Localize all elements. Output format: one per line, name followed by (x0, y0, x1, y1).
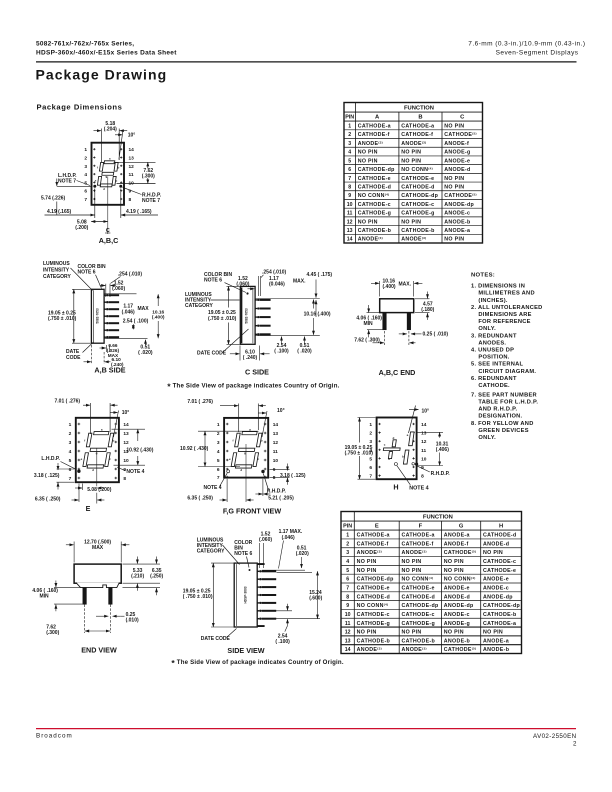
svg-text:14: 14 (347, 237, 353, 243)
svg-text:CATHODE-b: CATHODE-b (401, 228, 435, 234)
dimension 6.10 (.240) C side (239, 346, 241, 361)
svg-text:NO PIN: NO PIN (483, 550, 503, 556)
svg-text:f: f (84, 439, 85, 443)
svg-text:7. SEE PART NUMBER: 7. SEE PART NUMBER (471, 392, 537, 398)
svg-text:FOR REFERENCE: FOR REFERENCE (478, 319, 530, 325)
svg-text:ANODE(3): ANODE(3) (357, 550, 382, 557)
svg-text:b: b (118, 165, 120, 169)
svg-text:8: 8 (346, 594, 349, 600)
svg-text:CATHODE-dp: CATHODE-dp (402, 603, 439, 609)
svg-text:10°: 10° (277, 408, 285, 414)
svg-text:f: f (233, 439, 234, 443)
svg-text:CODE: CODE (66, 355, 81, 361)
dimension 6.10 (.240) body width (90, 345, 92, 364)
SIDE VIEW color bin mark (249, 569, 251, 571)
svg-text:CATHODE-d: CATHODE-d (483, 533, 517, 539)
svg-text:6: 6 (217, 467, 220, 473)
svg-text:(.200): (.200) (75, 225, 88, 231)
svg-text:12: 12 (123, 440, 129, 446)
svg-text:4.19 ( .165): 4.19 ( .165) (126, 209, 152, 215)
svg-text:(.300): (.300) (46, 630, 59, 636)
svg-text:10.92 ( .430): 10.92 ( .430) (180, 446, 209, 452)
svg-text:CIRCUIT DIAGRAM.: CIRCUIT DIAGRAM. (478, 369, 536, 375)
dimension 12.70 (.500) MAX end view (73, 542, 75, 563)
svg-text:ANODE-e: ANODE-e (444, 586, 470, 592)
svg-text:NO PIN: NO PIN (401, 158, 421, 164)
svg-text:4: 4 (217, 449, 220, 455)
svg-text:( .020): ( .020) (138, 350, 153, 356)
dimension 4.06 (.160) MIN end view (55, 581, 57, 588)
svg-text:1: 1 (69, 422, 72, 428)
svg-text:NO PIN: NO PIN (483, 630, 503, 636)
dimension 2.54 (.100) side view (270, 610, 292, 612)
svg-text:9: 9 (346, 603, 349, 609)
svg-text:e: e (229, 457, 231, 461)
svg-text:10: 10 (345, 612, 351, 618)
svg-text:14: 14 (421, 422, 427, 428)
svg-text:Package Dimensions: Package Dimensions (37, 102, 123, 111)
A,B side view body outline (91, 289, 104, 343)
svg-text:a: a (249, 427, 251, 431)
svg-text:6: 6 (69, 467, 72, 473)
svg-text:(.060): (.060) (259, 537, 272, 543)
svg-text:ANODE(3): ANODE(3) (401, 236, 426, 243)
svg-text:DESIGNATION.: DESIGNATION. (478, 414, 522, 420)
svg-text:6.35 ( .250): 6.35 ( .250) (35, 497, 61, 503)
svg-text:13: 13 (123, 431, 129, 437)
svg-text:NO PIN: NO PIN (444, 184, 464, 190)
svg-text:(.210): (.210) (131, 573, 144, 579)
svg-text:12: 12 (345, 630, 351, 636)
svg-text:NO PIN: NO PIN (444, 124, 464, 130)
svg-text:NO PIN: NO PIN (444, 176, 464, 182)
dimension 10.92 (.430) F,G view (198, 430, 259, 432)
svg-text:(.010): (.010) (126, 617, 139, 623)
dimension 10.92 (.430) E view (112, 428, 146, 430)
svg-text:8: 8 (421, 474, 424, 480)
dimension .254 (.010) pin thickness (105, 284, 107, 297)
svg-text:ANODE-b: ANODE-b (444, 219, 471, 225)
table EFGH data rows (341, 538, 522, 540)
svg-text:NOTE 4: NOTE 4 (126, 469, 144, 475)
svg-text:.254 (.010): .254 (.010) (262, 269, 287, 275)
A,B,C front view left decimal point L.H.D.P. (93, 185, 96, 188)
svg-text:A,B SIDE: A,B SIDE (94, 366, 125, 375)
svg-text:(.400): (.400) (383, 284, 396, 290)
svg-text:b: b (402, 455, 404, 459)
svg-text:(.060): (.060) (112, 286, 125, 292)
svg-text:NO PIN: NO PIN (444, 559, 464, 565)
svg-text:g: g (105, 175, 107, 179)
svg-text:Seven-Segment Displays: Seven-Segment Displays (496, 49, 579, 56)
svg-text:R.H.D.P.: R.H.D.P. (267, 488, 287, 494)
svg-text:CATHODE.: CATHODE. (478, 383, 510, 389)
svg-text:3: 3 (84, 164, 87, 170)
C side extension line pin 5 (255, 335, 320, 337)
svg-text:12: 12 (421, 439, 427, 445)
svg-text:CATHODE-f: CATHODE-f (358, 132, 390, 138)
table ABC FUNCTION header (344, 111, 483, 113)
svg-text:ANODE-a: ANODE-a (444, 533, 470, 539)
svg-text:CATHODE-f: CATHODE-f (402, 541, 434, 547)
svg-text:ANODE-d: ANODE-d (444, 594, 470, 600)
F,G front view body outline (224, 418, 268, 478)
svg-text:8. FOR YELLOW AND: 8. FOR YELLOW AND (471, 421, 534, 427)
svg-text:NO PIN: NO PIN (444, 237, 464, 243)
svg-text:10.16 (.400): 10.16 (.400) (304, 311, 331, 317)
svg-text:(.406): (.406) (436, 447, 449, 453)
svg-text:6: 6 (369, 465, 372, 471)
svg-text:10°: 10° (122, 410, 130, 416)
svg-text:e: e (81, 457, 83, 461)
SIDE VIEW extension line pin 7 (274, 618, 320, 620)
svg-text:8: 8 (348, 184, 351, 190)
svg-text:NOTE 7: NOTE 7 (142, 198, 160, 204)
svg-text:ANODE-f: ANODE-f (444, 141, 469, 147)
svg-text:NO PIN: NO PIN (358, 158, 378, 164)
H front view segment letters (384, 433, 409, 461)
svg-text:FUNCTION: FUNCTION (423, 515, 453, 521)
svg-text:ANODE-c: ANODE-c (483, 586, 509, 592)
END VIEW right leg (109, 588, 112, 605)
svg-text:L.H.D.P.: L.H.D.P. (41, 456, 60, 462)
svg-text:5. SEE INTERNAL: 5. SEE INTERNAL (471, 362, 523, 368)
svg-text:(.400): (.400) (152, 314, 165, 320)
svg-text:CATHODE-a: CATHODE-a (401, 124, 434, 130)
svg-text:CATHODE(5): CATHODE(5) (444, 132, 477, 139)
svg-text:CATHODE-b: CATHODE-b (357, 638, 391, 644)
svg-text:d: d (92, 468, 94, 472)
svg-text:A,B,C END: A,B,C END (379, 368, 416, 377)
svg-text:14: 14 (123, 422, 129, 428)
svg-text:CATHODE(5): CATHODE(5) (444, 647, 477, 654)
svg-text:F: F (419, 524, 423, 530)
svg-text:ANODE-d: ANODE-d (444, 167, 470, 173)
svg-text:CATHODE-dp: CATHODE-dp (357, 577, 394, 583)
A,B,C front view body outline (92, 143, 125, 205)
A,B side extension line from pin 7 (104, 338, 148, 340)
svg-text:c: c (257, 457, 259, 461)
svg-text:ANODE(3): ANODE(3) (401, 140, 426, 147)
svg-text:5.74 (.226): 5.74 (.226) (41, 196, 66, 202)
svg-text:MIN: MIN (364, 321, 374, 327)
svg-text:7: 7 (69, 476, 72, 482)
svg-text:11: 11 (273, 449, 278, 455)
svg-text:CATHODE-dp: CATHODE-dp (401, 193, 438, 199)
svg-text:LUMINOUS: LUMINOUS (43, 261, 70, 267)
svg-text:Broadcom: Broadcom (36, 732, 73, 739)
svg-text:ANODE-c: ANODE-c (444, 612, 470, 618)
svg-text:ANODE-g: ANODE-g (444, 621, 470, 627)
svg-text:10: 10 (347, 202, 353, 208)
svg-text:CATHODE-d: CATHODE-d (402, 594, 436, 600)
svg-text:13: 13 (345, 638, 351, 644)
svg-text:1: 1 (369, 422, 372, 428)
dimension 10 degree tilt (119, 132, 123, 160)
svg-text:NO PIN: NO PIN (357, 568, 377, 574)
svg-text:1: 1 (348, 124, 351, 130)
dimension 0.25 (.010) end view (96, 615, 108, 617)
svg-text:ANODE-a: ANODE-a (483, 638, 509, 644)
svg-text:c: c (116, 178, 118, 182)
svg-text:6: 6 (346, 577, 349, 583)
dimension 6.35 (.250) E view (78, 484, 80, 503)
svg-text:MAX: MAX (138, 306, 150, 312)
svg-text:CATHODE-d: CATHODE-d (357, 594, 391, 600)
svg-text:ANODE-b: ANODE-b (444, 638, 471, 644)
svg-text:NO PIN: NO PIN (358, 219, 378, 225)
svg-text:3: 3 (346, 550, 349, 556)
svg-text:CATHODE-e: CATHODE-e (401, 176, 434, 182)
svg-text:( .100): ( .100) (275, 639, 290, 645)
svg-text:1. DIMENSIONS IN: 1. DIMENSIONS IN (471, 284, 525, 290)
C side view pins (255, 299, 257, 301)
svg-text:11: 11 (347, 211, 353, 217)
svg-text:*: * (171, 658, 175, 668)
svg-text:CATEGORY: CATEGORY (185, 303, 213, 309)
svg-text:2: 2 (369, 431, 372, 437)
svg-text:NO PIN: NO PIN (357, 559, 377, 565)
svg-text:ANODE-e: ANODE-e (444, 158, 470, 164)
A,B,C end view left leg (383, 313, 386, 330)
svg-text:5.08 (.200): 5.08 (.200) (87, 487, 112, 493)
END VIEW bottom step with notch (76, 583, 119, 588)
table ABC column header row (344, 120, 483, 122)
SIDE VIEW pins (257, 570, 259, 572)
svg-text:B: B (418, 115, 422, 121)
svg-text:NOTE 6: NOTE 6 (78, 270, 96, 276)
dimension 7.62 (.300) end view (384, 331, 386, 345)
svg-text:CATHODE-a: CATHODE-a (357, 533, 390, 539)
dimension 10 degrees F,G view (262, 411, 267, 437)
svg-text:(.750 ± .010): (.750 ± .010) (345, 451, 374, 457)
svg-text:3. REDUNDANT: 3. REDUNDANT (471, 333, 517, 339)
svg-text:6: 6 (348, 167, 351, 173)
svg-text:ANODE-d: ANODE-d (483, 541, 509, 547)
svg-text:2: 2 (69, 431, 72, 437)
dimension extension lines below body (94, 189, 96, 219)
svg-text:8: 8 (129, 197, 132, 203)
svg-text:2. ALL UNTOLERANCED: 2. ALL UNTOLERANCED (471, 305, 543, 311)
table EFGH outer border (341, 512, 522, 654)
svg-text:14: 14 (345, 647, 351, 653)
svg-text:13: 13 (347, 228, 353, 234)
svg-text:Package Drawing: Package Drawing (36, 67, 168, 83)
svg-text:NOTE 4: NOTE 4 (204, 485, 222, 491)
svg-text:CATHODE-f: CATHODE-f (401, 132, 433, 138)
svg-text:7: 7 (346, 586, 349, 592)
svg-text:7: 7 (369, 474, 372, 480)
svg-text:12: 12 (129, 164, 135, 170)
E front view pin ticks (78, 423, 81, 425)
dimension 4.57 (.180) end view (415, 298, 430, 300)
svg-text:ANODE-g: ANODE-g (444, 150, 470, 156)
svg-text:NO PIN: NO PIN (402, 568, 422, 574)
svg-text:.254 (.010): .254 (.010) (118, 271, 143, 277)
svg-text:*: * (167, 381, 171, 391)
H front view pin ticks (378, 423, 380, 425)
svg-text:(.180): (.180) (421, 307, 434, 313)
svg-text:13: 13 (273, 431, 279, 437)
svg-text:E: E (375, 524, 379, 530)
svg-text:10: 10 (421, 456, 427, 462)
dimension 10.16 (.400) MAX end view (379, 281, 381, 297)
svg-text:NO CONN(4): NO CONN(4) (402, 576, 434, 583)
svg-text:d: d (392, 436, 394, 440)
SIDE VIEW body outline (234, 563, 257, 627)
svg-text:CATHODE-b: CATHODE-b (483, 612, 517, 618)
H front view plus-minus-one segments (382, 440, 401, 459)
A,B,C front view right decimal point R.H.D.P. (119, 185, 122, 188)
svg-text:a: a (109, 157, 111, 161)
svg-text:The Side View of package indic: The Side View of package indicates Count… (173, 383, 340, 390)
svg-text:14: 14 (129, 147, 135, 153)
svg-text:NO PIN: NO PIN (402, 559, 422, 565)
svg-text:NOTE 7: NOTE 7 (58, 179, 76, 185)
svg-text:CATHODE-a: CATHODE-a (402, 533, 435, 539)
svg-text:C: C (460, 115, 465, 121)
END VIEW left leg (83, 588, 86, 605)
svg-text:4. UNUSED DP: 4. UNUSED DP (471, 348, 514, 354)
svg-text:(.046): (.046) (282, 535, 295, 541)
svg-text:CATHODE-c: CATHODE-c (402, 612, 435, 618)
svg-text:4.45 ( .175): 4.45 ( .175) (307, 272, 333, 278)
dimension 7.62 (.300) end view (84, 605, 86, 634)
dimension 19.05 +/- 0.25 side view (212, 563, 214, 627)
svg-text:H: H (393, 483, 398, 492)
svg-text:CATHODE-g: CATHODE-g (401, 211, 435, 217)
svg-text:( .240): ( .240) (243, 355, 258, 361)
svg-text:ANODE-a: ANODE-a (444, 228, 470, 234)
svg-text:AND R.H.D.P.: AND R.H.D.P. (478, 407, 517, 413)
svg-text:b: b (261, 439, 263, 443)
svg-text:ANODES.: ANODES. (478, 340, 506, 346)
C side extension line pin 1 (255, 298, 320, 300)
svg-text:2: 2 (573, 740, 577, 747)
svg-text:GREEN DEVICES: GREEN DEVICES (478, 428, 528, 434)
svg-text:ANODE(3): ANODE(3) (357, 647, 382, 654)
svg-text:F,G FRONT VIEW: F,G FRONT VIEW (223, 507, 282, 516)
svg-text:PIN: PIN (343, 524, 352, 530)
svg-text:HDSP-3603: HDSP-3603 (243, 586, 247, 603)
svg-text:R.H.D.P.: R.H.D.P. (431, 471, 451, 477)
svg-text:(0.046): (0.046) (269, 281, 285, 287)
dimension 5.18 (.204) digit width (101, 129, 103, 163)
F,G front view seven segment digit (231, 432, 262, 469)
footer rule (red) (36, 728, 576, 730)
svg-text:CATHODE(5): CATHODE(5) (444, 550, 477, 557)
svg-text:9: 9 (348, 193, 351, 199)
svg-text:7.62 ( .300): 7.62 ( .300) (354, 337, 380, 343)
svg-text:d: d (240, 468, 242, 472)
svg-text:3: 3 (217, 440, 220, 446)
svg-text:MIN: MIN (40, 594, 50, 600)
E front view body outline (76, 418, 119, 482)
svg-text:11: 11 (345, 621, 351, 627)
svg-text:8: 8 (273, 475, 276, 481)
svg-text:CATHODE-dp: CATHODE-dp (483, 603, 520, 609)
dimension 7.01 (.276) F,G view (238, 404, 240, 433)
svg-text:CATHODE-dp: CATHODE-dp (358, 167, 395, 173)
A,B,C front view pin tick marks (93, 148, 95, 150)
svg-text:NO PIN: NO PIN (401, 219, 421, 225)
svg-text:NO PIN: NO PIN (358, 150, 378, 156)
dimension 10.16 (.400) right (157, 294, 159, 306)
svg-text:7.01 ( .276): 7.01 ( .276) (187, 399, 213, 405)
svg-text:11: 11 (421, 448, 426, 454)
svg-text:5082-761x/-762x/-765x Series,: 5082-761x/-762x/-765x Series, (36, 41, 134, 48)
svg-text:( .020): ( .020) (297, 349, 312, 355)
svg-text:CATHODE-a: CATHODE-a (358, 124, 391, 130)
H front view decimal point and circle (394, 463, 397, 466)
dimension 19.05 +/- 0.25 H view (359, 418, 361, 443)
svg-text:5: 5 (346, 568, 349, 574)
svg-text:CATHODE-e: CATHODE-e (483, 568, 516, 574)
E front view decimal point L.H.D.P. (77, 470, 80, 473)
svg-text:(.600): (.600) (309, 595, 322, 601)
svg-text:6.35 ( .250): 6.35 ( .250) (187, 495, 213, 501)
svg-text:CATHODE-f: CATHODE-f (357, 541, 389, 547)
svg-text:c: c (109, 457, 111, 461)
dimension 5.21 (.205) F,G view (262, 479, 264, 496)
C side view body outline (240, 286, 255, 344)
svg-text:a: a (407, 433, 409, 437)
svg-text:CATHODE-d: CATHODE-d (401, 184, 435, 190)
svg-text:a: a (101, 427, 103, 431)
F,G front view unused dp circle NOTE 4 (227, 470, 230, 473)
dimension 0.25 (.010) end view (399, 333, 407, 335)
svg-text:2: 2 (348, 132, 351, 138)
svg-text:NO PIN: NO PIN (444, 568, 464, 574)
svg-text:10°: 10° (422, 408, 430, 414)
svg-text:AV02-2550EN: AV02-2550EN (533, 733, 577, 740)
svg-text:(INCHES).: (INCHES). (478, 298, 508, 304)
svg-text:CATHODE-d: CATHODE-d (358, 184, 392, 190)
svg-text:ANODE-e: ANODE-e (483, 577, 509, 583)
dimension 10 degrees H view (409, 406, 416, 434)
dimension 0.66 (.026) MAX bottom pin (105, 345, 107, 352)
table ABC outer border (344, 103, 483, 244)
A,B,C front view seven segment digit (97, 161, 118, 187)
F,G front view decimal point R.H.D.P. (261, 470, 264, 473)
svg-text:5082-7653: 5082-7653 (244, 308, 248, 323)
svg-text:ANODE-f: ANODE-f (444, 541, 469, 547)
svg-text:(.046): (.046) (122, 309, 135, 315)
svg-text:MAX.: MAX. (293, 278, 306, 284)
svg-text:(.750 ± .010): (.750 ± .010) (48, 316, 77, 322)
svg-text:4: 4 (69, 449, 72, 455)
svg-text:CATEGORY: CATEGORY (43, 274, 71, 280)
SIDE VIEW extension line pin 1 (262, 569, 305, 571)
svg-text:MAX.: MAX. (399, 282, 412, 288)
svg-text:DATE CODE: DATE CODE (197, 350, 227, 356)
svg-text:5: 5 (69, 458, 72, 464)
svg-text:CATHODE-c: CATHODE-c (401, 202, 434, 208)
svg-text:HDSP-360x/-460x/-E15x Series D: HDSP-360x/-460x/-E15x Series Data Sheet (36, 50, 177, 57)
svg-text:NO CONN(4): NO CONN(4) (444, 576, 476, 583)
svg-text:CATHODE-a: CATHODE-a (483, 621, 516, 627)
svg-text:(.750 ± .010): (.750 ± .010) (208, 316, 237, 322)
svg-text:ANODE(3): ANODE(3) (402, 647, 427, 654)
svg-text:6. REDUNDANT: 6. REDUNDANT (471, 376, 517, 382)
dimension 5.33 (.210) end view (123, 563, 161, 565)
dimension 15.24 (.600) side view (317, 571, 319, 618)
svg-text:10.92 (.430): 10.92 (.430) (126, 448, 153, 454)
svg-text:6: 6 (84, 189, 87, 195)
svg-text:NO PIN: NO PIN (401, 150, 421, 156)
svg-text:3.18 ( .125): 3.18 ( .125) (280, 473, 306, 479)
svg-text:SIDE VIEW: SIDE VIEW (227, 646, 264, 655)
